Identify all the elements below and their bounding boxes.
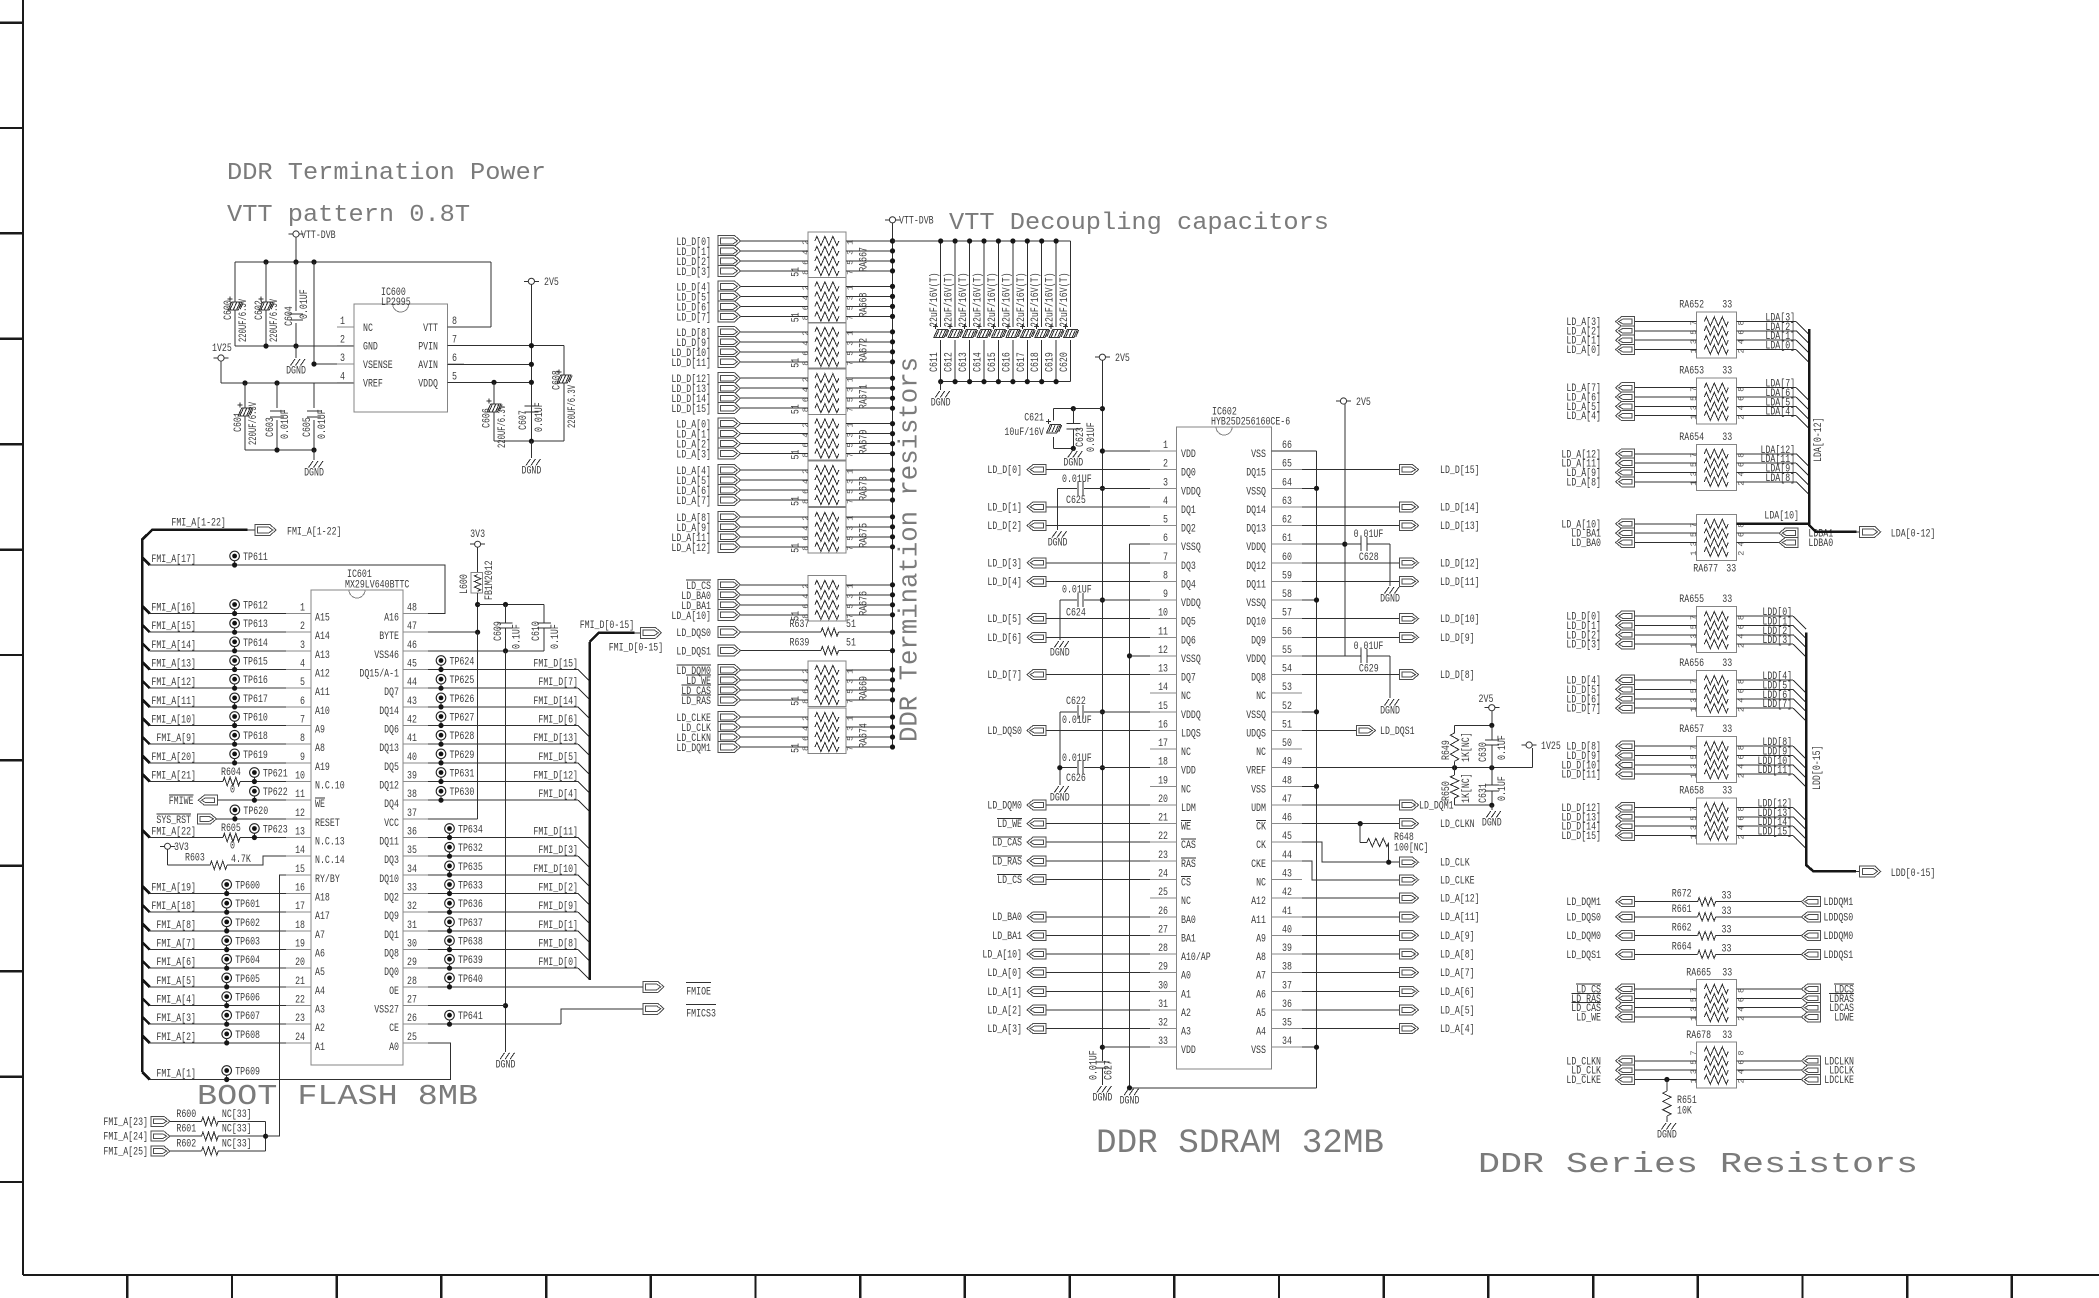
svg-text:FMI_A[19]: FMI_A[19] (151, 883, 196, 895)
svg-text:TP629: TP629 (450, 750, 475, 762)
svg-text:A2: A2 (1181, 1008, 1191, 1020)
net flag LD_D[10] (718, 346, 741, 357)
wire net FMI_A[11] (142, 699, 150, 707)
svg-text:6: 6 (452, 353, 457, 365)
svg-text:52: 52 (1282, 701, 1292, 713)
wire net FMI_D[9] (428, 911, 578, 913)
svg-text:22uF/16V(T): 22uF/16V(T) (929, 273, 941, 328)
wire net LD_D[11] (741, 361, 808, 363)
svg-text:37: 37 (1282, 980, 1292, 992)
svg-text:DQ3: DQ3 (1181, 561, 1196, 573)
svg-text:LDDQS1: LDDQS1 (1824, 950, 1854, 962)
test point TP620 (230, 805, 240, 815)
svg-text:LDDQS0: LDDQS0 (1824, 912, 1854, 924)
IC602 pins (1150, 450, 1177, 452)
svg-text:14: 14 (1158, 682, 1168, 694)
wire net FMI_A[18] (142, 905, 150, 913)
svg-text:DQ7: DQ7 (1181, 673, 1196, 685)
svg-text:DQ5: DQ5 (384, 762, 399, 774)
net flag LD_D[11] (1400, 576, 1419, 586)
net flag LD_RAS (1616, 993, 1635, 1003)
svg-text:LD_D[7]: LD_D[7] (987, 670, 1022, 682)
test point TP622 (250, 786, 260, 796)
net flag LD_CLKE (1400, 875, 1419, 885)
svg-text:47: 47 (1282, 794, 1292, 806)
svg-text:20: 20 (1158, 794, 1168, 806)
bus arrow LDD[0-15] (1860, 866, 1881, 877)
svg-text:C615: C615 (987, 352, 999, 372)
test point TP601 (222, 898, 232, 908)
wire 3V3 rail (477, 593, 479, 632)
wire net LD_BA0 (741, 594, 808, 596)
svg-text:DQ11: DQ11 (379, 837, 399, 849)
svg-text:DGND: DGND (1050, 793, 1070, 805)
net flag LD_A[1] (1027, 986, 1046, 996)
svg-text:DQ4: DQ4 (1181, 579, 1196, 591)
svg-text:C624: C624 (1066, 608, 1086, 620)
test point TP616 (230, 674, 240, 684)
wire net LD_D[2] (741, 260, 808, 262)
test point TP634 (445, 824, 455, 834)
svg-text:33: 33 (1722, 891, 1732, 903)
svg-text:DQ7: DQ7 (384, 687, 399, 699)
svg-text:FMI_D[10]: FMI_D[10] (533, 864, 578, 876)
svg-text:DQ4: DQ4 (384, 799, 399, 811)
svg-text:53: 53 (1282, 682, 1292, 694)
wire net LD_WE (741, 679, 808, 681)
net flag LD_D[6] (1027, 632, 1046, 642)
svg-text:C619: C619 (1045, 352, 1057, 372)
ground DGND (295, 346, 297, 358)
capacitor C626 0.01UF (1102, 767, 1150, 769)
svg-text:DQ13: DQ13 (379, 743, 399, 755)
svg-text:RA655: RA655 (1679, 594, 1704, 606)
svg-text:RA665: RA665 (1686, 968, 1711, 980)
svg-text:0.1UF: 0.1UF (550, 624, 562, 649)
wire net LD_A[2] (1046, 1009, 1150, 1011)
svg-text:A6: A6 (315, 949, 325, 961)
test point TP631 (436, 768, 446, 778)
svg-text:DGND: DGND (1380, 594, 1400, 606)
net flag LD_D[14] (718, 393, 741, 404)
svg-text:C609: C609 (493, 621, 505, 641)
svg-text:11: 11 (1158, 626, 1168, 638)
wire CK-bar (1302, 823, 1400, 825)
svg-text:A0: A0 (1181, 971, 1191, 983)
net flag LD_DQS1 (1616, 949, 1635, 959)
wire NC33 junction (265, 1121, 267, 1151)
wire net LD_D[5] (741, 295, 808, 297)
svg-text:NC: NC (1181, 747, 1191, 759)
wire net LD_D[15] (1302, 469, 1400, 471)
test point TP638 (445, 936, 455, 946)
net flag LDBA1 (1779, 528, 1798, 538)
svg-text:LD_CLK: LD_CLK (1440, 858, 1470, 870)
svg-text:DGND: DGND (496, 1059, 516, 1071)
svg-text:22uF/16V(T): 22uF/16V(T) (973, 273, 985, 328)
net flag LD_D[11] (718, 356, 741, 367)
net flag LD_BA0 (1027, 912, 1046, 922)
wire CE (428, 1023, 561, 1025)
wire net LDD[12] (1736, 807, 1793, 809)
wire net LDD[13] (1736, 816, 1793, 818)
wire net LD_D[1] (1046, 506, 1150, 508)
svg-text:33: 33 (1722, 432, 1732, 444)
wire net LD_D[10] (1302, 618, 1400, 620)
bus LDA[0-12] (1809, 329, 1857, 532)
net flag LD_A[8] (1616, 477, 1635, 487)
svg-text:18: 18 (295, 920, 305, 932)
svg-text:DDR Termination Power: DDR Termination Power (227, 160, 546, 187)
svg-text:A6: A6 (1256, 989, 1266, 1001)
svg-text:46: 46 (407, 640, 417, 652)
net flag LD_DQS1 (1357, 726, 1376, 736)
svg-text:LD_CS: LD_CS (997, 875, 1022, 887)
svg-text:39: 39 (407, 771, 417, 783)
svg-text:C618: C618 (1030, 352, 1042, 372)
svg-text:LD_WE: LD_WE (997, 819, 1022, 831)
svg-text:2: 2 (340, 335, 345, 347)
resistor R637 51 (821, 628, 839, 636)
wire (295, 237, 297, 262)
test point TP629 (436, 749, 446, 759)
wire VDD pin33 (1102, 1046, 1150, 1048)
svg-text:LD_D[1]: LD_D[1] (987, 502, 1022, 514)
svg-text:48: 48 (407, 603, 417, 615)
net flag LD_D[0] (718, 235, 741, 246)
wire net LDA[5] (1736, 405, 1796, 407)
svg-text:33: 33 (1158, 1036, 1168, 1048)
svg-text:8: 8 (1163, 570, 1168, 582)
wire net LD_A[2] (1634, 330, 1697, 332)
capacitor C618 22uF/16V(T) (1041, 241, 1043, 327)
power flag 2V5 (524, 280, 539, 282)
svg-text:43: 43 (407, 696, 417, 708)
wire net FMI_D[12] (428, 781, 578, 783)
svg-text:22uF/16V(T): 22uF/16V(T) (987, 273, 999, 328)
wire CKE (1302, 861, 1400, 880)
bus arrow FMI_A[1-22] (255, 525, 276, 536)
svg-text:30: 30 (407, 939, 417, 951)
net flag LD_CLK (718, 722, 741, 733)
svg-text:CKE: CKE (1251, 859, 1266, 871)
svg-text:35: 35 (1282, 1018, 1292, 1030)
svg-text:13: 13 (1158, 664, 1168, 676)
svg-text:CAS: CAS (1181, 840, 1196, 852)
svg-text:51: 51 (791, 696, 803, 706)
svg-text:DDR Series Resistors: DDR Series Resistors (1478, 1148, 1918, 1181)
svg-text:UDM: UDM (1251, 803, 1266, 815)
wire net LD_D[0] (1046, 469, 1150, 471)
net flag LD_D[9] (1400, 632, 1419, 642)
svg-text:17: 17 (1158, 738, 1168, 750)
svg-text:DQ6: DQ6 (1181, 635, 1196, 647)
svg-text:FMI_A[1]: FMI_A[1] (156, 1069, 196, 1081)
svg-text:FMI_D[3]: FMI_D[3] (538, 845, 578, 857)
bus arrow FMI_D[0-15] (640, 627, 661, 638)
IC601 MX29LV640BTTC (311, 590, 403, 1065)
svg-text:LDWE: LDWE (1834, 1013, 1854, 1025)
svg-text:LD_DQS0: LD_DQS0 (987, 726, 1022, 738)
svg-text:11: 11 (295, 789, 305, 801)
svg-text:5: 5 (452, 372, 457, 384)
wire net LD_A[6] (741, 489, 808, 491)
test point TP611 (230, 551, 240, 561)
svg-text:LD_D[6]: LD_D[6] (987, 633, 1022, 645)
svg-text:33: 33 (1722, 786, 1732, 798)
svg-text:VSS27: VSS27 (374, 1005, 399, 1017)
svg-text:R602: R602 (176, 1139, 196, 1151)
wire (1455, 724, 1492, 726)
test point TP600 (222, 880, 232, 890)
svg-text:DQ0: DQ0 (1181, 468, 1196, 480)
svg-text:42: 42 (407, 715, 417, 727)
net flag LD_D[7] (1616, 703, 1635, 713)
svg-text:RA654: RA654 (1679, 432, 1704, 444)
svg-text:VCC: VCC (384, 818, 399, 830)
RA668 resistors (815, 282, 839, 291)
capacitor C617 22uF/16V(T) (1026, 241, 1028, 327)
svg-text:LD_D[9]: LD_D[9] (1440, 633, 1475, 645)
svg-text:FMI_A[5]: FMI_A[5] (156, 976, 196, 988)
svg-text:51: 51 (791, 543, 803, 553)
net flag LD_D[9] (718, 336, 741, 347)
svg-text:LD_A[10]: LD_A[10] (982, 950, 1022, 962)
svg-text:DQ15/A-1: DQ15/A-1 (359, 669, 399, 681)
net flag LDCLKN (1801, 1056, 1820, 1066)
wire VSSQ rail left (1129, 544, 1131, 1088)
wire net LD_DQM0 (741, 669, 808, 671)
wire net FMI_A[16] (142, 606, 150, 614)
wire net LD_D[9] (741, 341, 808, 343)
net flag LD_D[15] (1616, 831, 1635, 841)
svg-text:VTT Decoupling capacitors: VTT Decoupling capacitors (949, 210, 1329, 237)
svg-text:FMI_A[3]: FMI_A[3] (156, 1013, 196, 1025)
net flag FMI_A[25] (151, 1146, 170, 1156)
svg-text:R605: R605 (221, 823, 241, 835)
capacitor C620 22uF/16V(T) (1070, 241, 1072, 327)
svg-text:5: 5 (1163, 515, 1168, 527)
power flag VTT-DVB (885, 219, 900, 221)
svg-text:LD_A[0]: LD_A[0] (1566, 345, 1601, 357)
svg-text:51: 51 (846, 619, 856, 631)
svg-text:FMI_D[8]: FMI_D[8] (538, 939, 578, 951)
svg-text:TP622: TP622 (263, 787, 288, 799)
net flag LD_A[5] (1616, 401, 1635, 411)
svg-text:LD_D[7]: LD_D[7] (1566, 704, 1601, 716)
svg-text:51: 51 (791, 312, 803, 322)
svg-text:LD_D[15]: LD_D[15] (671, 404, 711, 416)
wire net FMI_A[4] (142, 998, 150, 1006)
wire net LD_A[4] (1634, 415, 1697, 417)
power flag 2V5 (1484, 707, 1499, 709)
net flag LD_BA0 (1616, 538, 1635, 548)
svg-text:DQ0: DQ0 (384, 967, 399, 979)
svg-text:LDD[0-15]: LDD[0-15] (1891, 868, 1936, 880)
svg-text:LDD[15]: LDD[15] (1758, 827, 1793, 839)
wire net FMI_A[2] (142, 1035, 150, 1043)
svg-text:43: 43 (1282, 869, 1292, 881)
svg-text:30: 30 (1158, 980, 1168, 992)
wire gnd rail (494, 440, 564, 442)
node junctions (263, 259, 268, 264)
net arrow FMICS3 (643, 1003, 664, 1014)
wire net LDD[7] (1736, 707, 1793, 709)
wire net LD_A[2] (741, 443, 808, 445)
svg-text:1K[NC]: 1K[NC] (1461, 773, 1473, 803)
wire VCC pin37 (428, 818, 478, 820)
capacitor C611 22uF/16V(T) (940, 241, 942, 327)
svg-text:UDQS: UDQS (1246, 729, 1266, 741)
net flag LD_D[8] (718, 326, 741, 337)
svg-text:DQ8: DQ8 (384, 949, 399, 961)
wire net LD_DQS1 (1634, 953, 1698, 955)
svg-text:TP627: TP627 (450, 713, 475, 725)
test point TP602 (222, 917, 232, 927)
ground DGND (1072, 448, 1074, 451)
svg-text:12: 12 (295, 808, 305, 820)
net flag LDCAS (1801, 1003, 1820, 1013)
resistor R648 100[NC] (1359, 824, 1361, 843)
svg-text:TP602: TP602 (235, 918, 260, 930)
svg-text:LD_A[3]: LD_A[3] (987, 1024, 1022, 1036)
svg-text:LD_CAS: LD_CAS (992, 838, 1022, 850)
svg-text:OE: OE (389, 986, 399, 998)
svg-text:DDR Termination resistors: DDR Termination resistors (896, 357, 925, 742)
svg-text:25: 25 (407, 1032, 417, 1044)
svg-text:TP606: TP606 (235, 993, 260, 1005)
wire net LDA[7] (1736, 387, 1796, 389)
wire net LD_DQM1 (741, 746, 808, 748)
wire net LD_RAS (1634, 997, 1697, 999)
wire net LD_A[7] (1634, 387, 1697, 389)
svg-text:LD_D[8]: LD_D[8] (1440, 670, 1475, 682)
svg-text:1K[NC]: 1K[NC] (1461, 732, 1473, 762)
svg-text:LDD[11]: LDD[11] (1758, 765, 1793, 777)
capacitor C604 (295, 262, 297, 311)
test point TP610 (230, 712, 240, 722)
wire net LD_A[0] (741, 423, 808, 425)
svg-text:22uF/16V(T): 22uF/16V(T) (1016, 273, 1028, 328)
svg-text:LDCLKE: LDCLKE (1824, 1075, 1854, 1087)
net flag LD_DQS0 (1027, 726, 1046, 736)
svg-text:DQ1: DQ1 (384, 930, 399, 942)
svg-text:VREF: VREF (1246, 766, 1266, 778)
svg-text:64: 64 (1282, 477, 1292, 489)
resistor network RA668 box (808, 277, 846, 323)
wire lower gnd rail (245, 449, 314, 451)
wire net FMI_A[19] (142, 886, 150, 894)
svg-text:C620: C620 (1059, 352, 1071, 372)
wire net LD_A[4] (1302, 1028, 1400, 1030)
svg-text:2V5: 2V5 (1479, 694, 1494, 706)
net flag LD_D[5] (1616, 684, 1635, 694)
wire net LD_D[3] (741, 270, 808, 272)
net flag LD_D[3] (1027, 558, 1046, 568)
net flag LD_D[8] (1616, 741, 1635, 751)
svg-text:0.01UF: 0.01UF (1062, 753, 1092, 765)
svg-text:8: 8 (452, 316, 457, 328)
svg-text:33: 33 (407, 883, 417, 895)
svg-text:FMI_D[13]: FMI_D[13] (533, 733, 578, 745)
ground DGND (940, 382, 942, 390)
test point TP604 (222, 954, 232, 964)
wire net LD_D[9] (1302, 636, 1400, 638)
svg-text:0.1UF: 0.1UF (1497, 776, 1509, 801)
svg-text:VSS: VSS (1251, 784, 1266, 796)
svg-text:DQ1: DQ1 (1181, 505, 1196, 517)
svg-text:1: 1 (340, 316, 345, 328)
svg-text:24: 24 (295, 1032, 305, 1044)
svg-text:VSSQ: VSSQ (1246, 710, 1266, 722)
wire net LD_CLK (741, 726, 808, 728)
wire net LD_D[10] (1634, 764, 1697, 766)
wire net FMI_D[1] (428, 930, 578, 932)
net flag LD_D[10] (1400, 614, 1419, 624)
svg-text:7: 7 (1689, 1050, 1699, 1055)
power flag 2V5 (1336, 400, 1351, 402)
net flag LD_A[7] (718, 495, 741, 506)
svg-text:LP2995: LP2995 (381, 297, 411, 309)
svg-text:C616: C616 (1001, 352, 1013, 372)
resistor R601 NC[33] (170, 1135, 202, 1137)
resistor network RA665 33 (1696, 980, 1736, 1026)
resistor network RA656 33 (1696, 671, 1736, 717)
wire net LD_D[14] (1634, 825, 1697, 827)
wire VSS pin (1302, 1046, 1317, 1048)
svg-text:1: 1 (300, 603, 305, 615)
net flag LD_A[6] (718, 485, 741, 496)
wire net LD_A[1] (1046, 990, 1150, 992)
svg-text:VSENSE: VSENSE (363, 360, 393, 372)
net flag LD_CLK (1616, 1065, 1635, 1075)
svg-text:WE: WE (1181, 822, 1191, 834)
svg-text:4: 4 (1163, 496, 1168, 508)
net flag LD_CLKE (1616, 1075, 1635, 1085)
net flag LD_WE (718, 674, 741, 685)
svg-text:LD_D[14]: LD_D[14] (1440, 502, 1480, 514)
wire net LD_D[11] (1634, 773, 1697, 775)
wire VSS46 rail (428, 650, 544, 652)
wire net FMI_A[13] (142, 662, 150, 670)
wire VSSQ gnd (1130, 1087, 1317, 1089)
svg-text:LD_A[11]: LD_A[11] (1440, 912, 1480, 924)
wire net LDD[5] (1736, 688, 1793, 690)
svg-text:0.01UF: 0.01UF (1062, 715, 1092, 727)
svg-text:LD_DQS1: LD_DQS1 (1566, 950, 1601, 962)
svg-text:TP638: TP638 (458, 937, 483, 949)
svg-text:LD_RAS: LD_RAS (992, 856, 1022, 868)
wire net LDA[2] (1736, 330, 1796, 332)
svg-text:A8: A8 (315, 743, 325, 755)
svg-text:4.7K: 4.7K (231, 854, 251, 866)
svg-text:FMIWE: FMIWE (169, 796, 194, 808)
svg-text:A12: A12 (1251, 896, 1266, 908)
svg-text:DQ8: DQ8 (1251, 673, 1266, 685)
svg-text:TP626: TP626 (450, 694, 475, 706)
svg-text:33: 33 (1722, 658, 1732, 670)
svg-text:A11: A11 (315, 687, 330, 699)
wire net LD_D[15] (741, 407, 808, 409)
svg-text:56: 56 (1282, 626, 1292, 638)
svg-text:LDDQM0: LDDQM0 (1824, 931, 1854, 943)
svg-text:C606: C606 (482, 408, 494, 428)
svg-text:A12: A12 (315, 669, 330, 681)
capacitor C601 (244, 383, 246, 450)
svg-text:CS: CS (1181, 878, 1191, 890)
wire net LDA[3] (1736, 321, 1796, 323)
svg-text:LD_BA0: LD_BA0 (992, 912, 1022, 924)
